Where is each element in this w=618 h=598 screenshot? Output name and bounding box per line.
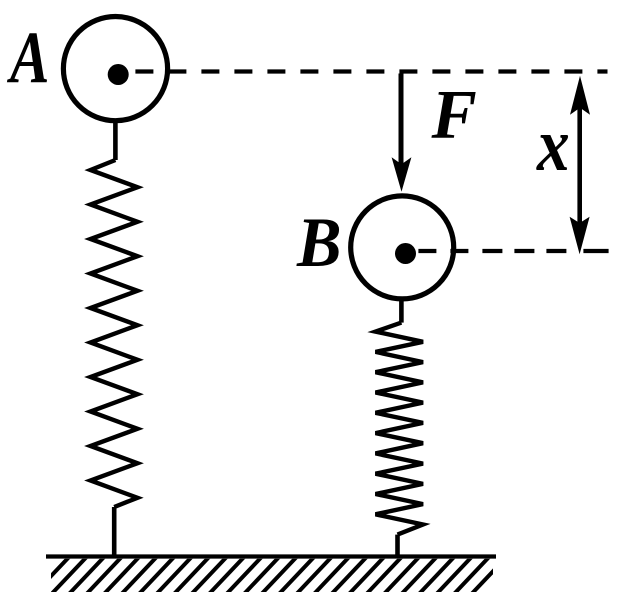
dimension arrow x top head [570,76,590,115]
dashed line A (from ball A center to right) [135,69,607,73]
svg-text:x: x [536,104,570,188]
force arrow F stem [399,74,404,171]
dimension arrow x bottom head [570,217,590,254]
svg-text:B: B [296,203,341,281]
dot A (center of ball A) [108,64,129,85]
force arrow F head [392,157,412,192]
svg-text:F: F [431,76,477,153]
ground hatching [34,556,508,594]
dashed line B (from ball B center to right) [418,249,570,253]
spring A lower stub [112,507,117,557]
dot B (center of ball B) [395,243,416,264]
spring A upper stub [113,122,118,160]
ball A [63,17,167,121]
spring B upper stub [399,299,404,323]
spring B zigzag [376,323,424,535]
ball B [351,196,454,299]
spring B lower stub [395,535,400,557]
dashed line B final dash (right of arrow) [583,249,608,253]
spring A zigzag [91,160,138,507]
ground line [46,554,496,558]
dimension arrow x stem [577,95,582,230]
svg-text:A: A [6,17,49,99]
